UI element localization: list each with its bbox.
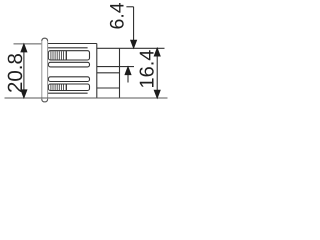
svg-text:16.4: 16.4: [137, 50, 159, 89]
svg-text:6.4: 6.4: [107, 2, 129, 29]
svg-text:20.8: 20.8: [4, 53, 27, 93]
